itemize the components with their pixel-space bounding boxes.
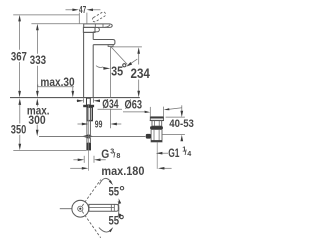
svg-text:/: / (113, 151, 115, 160)
svg-text:Ø34: Ø34 (102, 97, 118, 111)
svg-text:55: 55 (109, 185, 120, 199)
svg-text:333: 333 (30, 53, 46, 67)
svg-text:Ø63: Ø63 (125, 98, 143, 112)
svg-text:G1: G1 (168, 146, 179, 160)
svg-text:55: 55 (109, 214, 120, 228)
svg-text:234: 234 (131, 66, 151, 81)
svg-text:99: 99 (95, 120, 103, 131)
svg-text:35: 35 (111, 63, 123, 78)
svg-text:367: 367 (11, 50, 27, 64)
svg-text:max.180: max.180 (101, 164, 144, 178)
svg-text:350: 350 (11, 123, 27, 137)
svg-text:8: 8 (116, 151, 120, 160)
svg-text:4: 4 (187, 149, 191, 158)
svg-text:40-53: 40-53 (169, 118, 194, 130)
svg-text:G: G (101, 147, 109, 161)
svg-text:47: 47 (79, 5, 86, 16)
svg-text:max.30: max.30 (40, 75, 74, 89)
svg-text:300: 300 (28, 113, 45, 127)
